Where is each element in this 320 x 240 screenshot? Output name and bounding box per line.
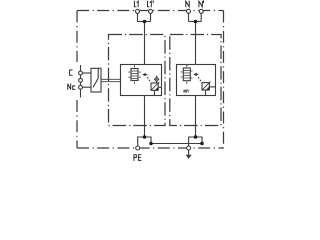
wire to node D	[196, 137, 203, 144]
terminal L1'	[149, 9, 153, 13]
label L1	[134, 1, 138, 7]
trigger arrow module 2	[193, 73, 198, 76]
module 2 dash-dot box	[170, 35, 221, 126]
switch K1 blade	[93, 78, 98, 87]
wire ground bus	[151, 143, 202, 145]
disconnector module 1 stub right	[158, 86, 161, 88]
enclosure border left upper	[76, 11, 78, 63]
indicator diamond module 1	[154, 76, 159, 83]
trigger arrow module 1	[142, 73, 147, 76]
label C	[70, 70, 72, 75]
terminal C	[79, 71, 83, 75]
terminal N	[187, 9, 191, 13]
terminal earth	[187, 146, 191, 150]
disconnector module 1	[151, 82, 159, 90]
wire L1 drop	[137, 13, 139, 21]
wire Nc to switch	[82, 86, 91, 88]
spark gap F2 stack	[183, 68, 190, 81]
module 2 box	[177, 65, 216, 96]
label N/PE	[184, 90, 189, 93]
wire to PE terminal	[138, 137, 145, 146]
wire N' drop	[200, 13, 202, 21]
terminal N'	[199, 9, 203, 13]
wire to earth terminal	[189, 137, 196, 146]
node C2	[194, 135, 198, 139]
wire N drop	[188, 13, 190, 21]
spark gap F2 halo dashes	[181, 65, 193, 84]
node junction L1 pair	[143, 20, 147, 24]
terminal NO	[79, 78, 83, 82]
remote contact wire stub	[80, 65, 82, 98]
ground symbol	[186, 150, 192, 159]
wire L1-L1' joining	[138, 21, 151, 23]
node B	[149, 142, 153, 146]
disconnector module 2 stub bottom	[205, 90, 207, 96]
disconnector module 2 stub right	[209, 86, 215, 88]
wire module2 bottom down	[195, 96, 197, 138]
label L1'	[148, 1, 154, 7]
label Nc	[68, 84, 75, 90]
spark gap F1 halo dashes	[128, 65, 140, 84]
mechanical linkage double line	[101, 79, 121, 81]
terminal L1	[136, 9, 140, 13]
wire L1' drop	[150, 13, 152, 21]
terminal Nc	[79, 85, 83, 89]
wire to node B	[145, 137, 152, 144]
spark gap F1 stack	[131, 69, 138, 81]
node junction N pair	[194, 20, 198, 24]
wire module1 bottom down	[144, 96, 146, 138]
terminal PE	[136, 146, 140, 150]
label PE	[134, 155, 141, 161]
node A	[143, 135, 147, 139]
enclosure border top	[77, 10, 224, 12]
disconnector module 1 stub bottom	[154, 90, 156, 95]
module 1 dash-dot box	[109, 35, 166, 126]
module 1 box	[121, 65, 162, 96]
label N	[186, 1, 189, 7]
switch K1 pole	[97, 68, 99, 78]
node D	[200, 142, 204, 146]
linkage dashes module 1	[147, 77, 150, 82]
wire module1 feed down	[144, 22, 146, 65]
enclosure border right	[223, 11, 225, 149]
enclosure border left lower	[76, 100, 78, 148]
linkage dashes module 2	[198, 77, 201, 82]
disconnector module 2	[202, 82, 211, 90]
wire N-N' joining	[189, 21, 202, 23]
label N'	[199, 1, 204, 7]
enclosure border bottom	[77, 147, 224, 149]
switch K1 box	[91, 68, 101, 92]
wire module2 feed down	[195, 22, 197, 65]
wire C to switch	[82, 72, 91, 74]
